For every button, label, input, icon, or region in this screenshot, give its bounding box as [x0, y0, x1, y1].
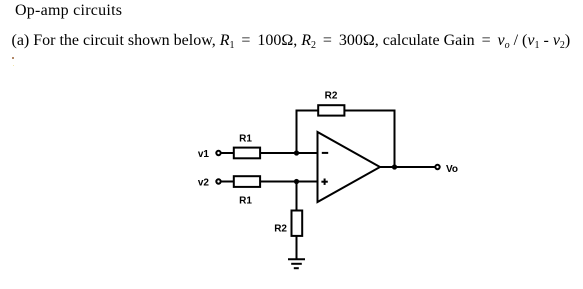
- resistor R1 (top): [234, 134, 260, 159]
- resistor R2 (grounding): [274, 211, 302, 236]
- node A: junction of v1 branch and feedback R2: [294, 150, 299, 155]
- wire R1 to non-inverting input: [260, 181, 317, 183]
- wire R1 to inverting input: [260, 152, 317, 154]
- svg-text:R2: R2: [325, 91, 338, 102]
- svg-text:Vo: Vo: [446, 164, 458, 175]
- node B: junction of v2 branch and grounding R2: [294, 179, 299, 184]
- resistor R2 (feedback): [318, 91, 344, 116]
- wire node B down to R2: [296, 182, 298, 211]
- wire R2 to ground: [296, 236, 298, 259]
- terminal Vo: [435, 164, 458, 175]
- svg-text:R1: R1: [239, 134, 252, 145]
- svg-text:v1: v1: [198, 149, 210, 160]
- svg-text:R2: R2: [274, 224, 287, 235]
- ground: [288, 259, 305, 268]
- title line: [15, 2, 122, 20]
- problem statement line: [12, 32, 571, 50]
- wire v2 terminal to R1: [221, 181, 234, 183]
- svg-text:R1: R1: [239, 196, 252, 207]
- terminal v1: [198, 149, 221, 160]
- node C: output junction with feedback: [392, 164, 397, 169]
- wire node A up to feedback resistor: [297, 111, 318, 154]
- terminal v2: [198, 178, 221, 189]
- wire op-amp output to terminal: [380, 166, 435, 168]
- op-amp U1: [318, 132, 381, 202]
- wire feedback R2 to output node: [344, 111, 394, 168]
- wire v1 terminal to R1: [221, 152, 234, 154]
- svg-text:v2: v2: [198, 178, 210, 189]
- resistor R1 (bottom): [234, 176, 260, 207]
- speck artifact: [12, 57, 14, 59]
